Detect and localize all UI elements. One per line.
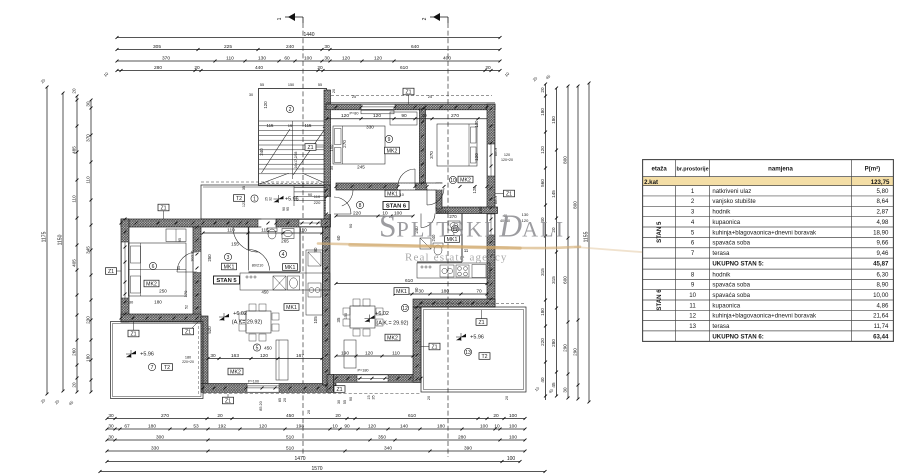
bed bedroom6 — [129, 243, 187, 296]
room number 11 — [451, 225, 458, 232]
svg-text:+5.96: +5.96 — [140, 352, 154, 358]
svg-text:55: 55 — [318, 83, 322, 87]
svg-text:340: 340 — [384, 445, 392, 451]
svg-text:115: 115 — [261, 227, 269, 233]
wall west outer — [121, 219, 129, 322]
svg-text:8: 8 — [359, 203, 362, 209]
svg-text:90: 90 — [344, 423, 350, 429]
wall between bedroom9 and bedroom10 — [420, 109, 426, 183]
wall entry-terrace east pier — [276, 219, 330, 227]
svg-text:52: 52 — [185, 305, 189, 309]
svg-text:Z1: Z1 — [108, 269, 114, 275]
entry canopy dashed — [201, 181, 330, 183]
svg-text:MK1: MK1 — [387, 191, 398, 197]
svg-text:11: 11 — [689, 302, 696, 309]
svg-text:290: 290 — [572, 348, 577, 356]
right dimension chain row1 — [545, 84, 547, 400]
svg-text:610: 610 — [405, 278, 413, 284]
svg-text:245: 245 — [357, 165, 365, 170]
svg-text:450: 450 — [262, 290, 270, 295]
room number 7 — [148, 363, 155, 370]
svg-text:90: 90 — [313, 247, 318, 252]
svg-text:70: 70 — [476, 288, 482, 294]
window in top wall — [361, 104, 395, 109]
right dimension chain row3 — [567, 86, 569, 398]
svg-text:20: 20 — [71, 88, 76, 94]
svg-text:35: 35 — [372, 395, 376, 399]
svg-text:12: 12 — [402, 306, 408, 312]
svg-text:150: 150 — [344, 313, 348, 319]
label MK2 bedroom10 — [458, 176, 473, 183]
room number 9 — [385, 135, 392, 142]
svg-text:95: 95 — [178, 238, 182, 242]
svg-text:MK1: MK1 — [286, 305, 297, 311]
svg-text:270: 270 — [451, 113, 459, 119]
svg-text:1175: 1175 — [41, 231, 47, 242]
stairs lower flight treads — [294, 186, 326, 206]
table row 2.kat highlight — [643, 177, 894, 186]
svg-text:Z1: Z1 — [336, 387, 342, 393]
level mark stan6 — [370, 315, 375, 318]
svg-text:220: 220 — [540, 338, 545, 346]
room number 12 — [401, 304, 408, 311]
svg-text:250: 250 — [159, 289, 167, 294]
svg-text:370: 370 — [85, 134, 90, 142]
wall measurement ticks bedroom6 walls — [196, 226, 199, 229]
svg-text:100: 100 — [509, 434, 517, 440]
svg-text:167: 167 — [296, 353, 304, 359]
svg-text:vanjsko stubište: vanjsko stubište — [712, 198, 756, 205]
wall measurement ticks top wall — [335, 106, 338, 109]
svg-text:5,80: 5,80 — [877, 188, 889, 195]
svg-text:510: 510 — [286, 445, 294, 451]
svg-text:9,66: 9,66 — [877, 240, 889, 247]
door gap entry stan5 — [258, 219, 283, 226]
level mark terrace7 — [131, 351, 136, 354]
dining table stan6 — [350, 306, 375, 328]
svg-text:95: 95 — [286, 207, 290, 211]
svg-text:(A.K.= 29.92): (A.K.= 29.92) — [377, 321, 409, 327]
wall east outer — [487, 104, 495, 307]
room number 10 — [449, 176, 456, 183]
svg-text:Z1: Z1 — [130, 331, 136, 337]
svg-text:390: 390 — [464, 445, 472, 451]
svg-text:110: 110 — [314, 194, 321, 199]
svg-text:90: 90 — [349, 397, 353, 401]
svg-text:br.prostorije: br.prostorije — [677, 167, 709, 173]
window parapet bedroom9 — [361, 110, 394, 114]
wall measurement ticks bedroom divider wall — [335, 185, 338, 188]
stairs break line — [259, 183, 326, 185]
svg-text:350: 350 — [378, 434, 386, 440]
door arc stan6 entry — [334, 197, 351, 214]
svg-text:10: 10 — [332, 423, 338, 429]
svg-text:30: 30 — [129, 300, 134, 305]
svg-text:305: 305 — [153, 44, 161, 50]
svg-text:Z1: Z1 — [478, 320, 484, 326]
svg-text:30: 30 — [418, 288, 424, 294]
stairs treads — [259, 121, 326, 179]
svg-text:P(m²): P(m²) — [865, 166, 881, 173]
svg-text:180: 180 — [540, 108, 545, 116]
label Z1 terrace13-top — [476, 319, 487, 326]
svg-text:20: 20 — [505, 396, 509, 400]
svg-text:MK2: MK2 — [460, 177, 471, 183]
svg-text:STAN 5: STAN 5 — [216, 278, 237, 284]
wall connector hall8 east — [436, 183, 442, 209]
svg-text:345: 345 — [85, 246, 90, 254]
top dimension chain row2 — [117, 49, 500, 51]
svg-text:440: 440 — [255, 65, 263, 71]
svg-text:35: 35 — [242, 186, 246, 190]
terrace entry T2 outline — [201, 185, 330, 219]
svg-text:8,90: 8,90 — [877, 282, 889, 289]
room number 1 — [251, 195, 258, 202]
svg-text:13: 13 — [689, 323, 696, 330]
svg-text:30: 30 — [85, 101, 90, 107]
svg-text:120: 120 — [374, 55, 382, 61]
svg-text:terasa: terasa — [712, 250, 730, 257]
svg-text:100: 100 — [304, 55, 312, 61]
svg-text:180: 180 — [437, 423, 445, 429]
door gap stan6 entry — [326, 197, 334, 214]
svg-text:1155: 1155 — [583, 231, 589, 242]
svg-text:18,90: 18,90 — [873, 229, 889, 236]
wall bedroom6 east — [193, 227, 201, 322]
svg-text:110: 110 — [85, 176, 90, 184]
svg-text:60: 60 — [284, 55, 290, 61]
svg-text:kupaonica: kupaonica — [712, 219, 740, 226]
svg-text:Z1: Z1 — [307, 145, 313, 151]
door arc bedroom6 — [177, 252, 197, 272]
bathroom11 walls — [461, 213, 463, 262]
left dimension chain row3 — [76, 96, 78, 392]
terrace13 outline — [421, 307, 526, 392]
svg-text:120: 120 — [342, 55, 350, 61]
svg-text:110: 110 — [392, 350, 400, 356]
svg-text:20: 20 — [493, 413, 499, 419]
stairs left flight diagonal — [262, 129, 291, 173]
svg-text:35: 35 — [336, 317, 341, 322]
bottom dimension chain row2 — [107, 428, 525, 430]
svg-text:3: 3 — [227, 255, 230, 261]
svg-text:kuhinja+blagovaonica+dnevni bo: kuhinja+blagovaonica+dnevni boravak — [712, 229, 817, 236]
wall stan6 south step — [327, 375, 334, 393]
svg-text:9,46: 9,46 — [877, 250, 889, 257]
svg-text:100: 100 — [480, 423, 488, 429]
svg-text:Z1: Z1 — [431, 344, 437, 350]
svg-text:1: 1 — [277, 17, 283, 20]
svg-text:450: 450 — [286, 413, 294, 419]
svg-text:+5.96: +5.96 — [470, 335, 484, 341]
stairs direction line — [293, 126, 327, 175]
roof overhang dashed — [331, 95, 492, 97]
interior dim chain bedrooms top — [327, 118, 487, 120]
svg-text:hodnik: hodnik — [712, 209, 731, 216]
window east kitchen — [487, 214, 494, 235]
svg-text:220: 220 — [353, 210, 361, 216]
wall bathroom11 north — [436, 207, 498, 214]
svg-text:120: 120 — [368, 423, 376, 429]
svg-text:namjena: namjena — [768, 166, 793, 173]
wall measurement ticks stan6 south wall — [335, 377, 338, 380]
stair block outline — [259, 89, 327, 186]
svg-text:190: 190 — [341, 350, 349, 356]
svg-text:67: 67 — [124, 423, 130, 429]
svg-text:150: 150 — [329, 144, 334, 151]
terrace7 roof dashed — [198, 326, 200, 394]
svg-text:MK1: MK1 — [224, 264, 235, 270]
window east bedroom10 — [487, 144, 494, 176]
kitchen stan6 counter — [417, 263, 490, 278]
svg-text:510: 510 — [286, 434, 294, 440]
svg-text:120: 120 — [540, 146, 545, 154]
svg-text:etaža: etaža — [651, 166, 667, 173]
svg-text:UKUPNO STAN 5:: UKUPNO STAN 5: — [712, 261, 763, 268]
watermark swoosh — [318, 244, 580, 249]
svg-text:45: 45 — [551, 382, 556, 388]
svg-text:800: 800 — [572, 201, 577, 209]
svg-text:1150: 1150 — [57, 234, 63, 245]
svg-text:+6.02: +6.02 — [233, 311, 247, 317]
svg-text:20: 20 — [194, 65, 200, 71]
dining table stan5 — [246, 311, 271, 333]
svg-text:610: 610 — [408, 413, 416, 419]
svg-text:30: 30 — [108, 413, 114, 419]
left dimension chain 1175 — [46, 87, 48, 394]
label Z1 top — [403, 88, 414, 95]
svg-text:115: 115 — [267, 123, 275, 128]
svg-text:4,86: 4,86 — [877, 302, 889, 309]
svg-text:105: 105 — [313, 316, 318, 324]
svg-text:7: 7 — [151, 365, 154, 371]
svg-text:123: 123 — [242, 201, 246, 207]
label T2 terrace13 — [479, 353, 490, 360]
svg-text:330: 330 — [151, 445, 159, 451]
svg-text:30: 30 — [421, 113, 427, 119]
wall stan5 south — [201, 384, 336, 393]
svg-text:Z1: Z1 — [506, 191, 512, 197]
right dimension chain 1155 — [588, 83, 590, 402]
svg-text:170: 170 — [183, 290, 188, 297]
wall top of west apartment — [121, 219, 261, 227]
svg-text:120: 120 — [474, 153, 479, 161]
label Z1 terrace13-left — [429, 343, 440, 350]
svg-text:55: 55 — [260, 83, 264, 87]
label Z1 stairs — [305, 144, 316, 151]
door gap room9 — [398, 183, 415, 189]
svg-text:130: 130 — [474, 120, 479, 128]
svg-text:90: 90 — [414, 287, 419, 292]
wardrobe bedroom9 — [390, 112, 417, 125]
label Z1 terrace7-b — [183, 328, 194, 335]
svg-text:180: 180 — [551, 116, 556, 124]
right dimension chain row4 — [577, 86, 579, 399]
top dimension chain row4 — [117, 70, 500, 72]
svg-text:120: 120 — [504, 153, 510, 157]
room number 6 — [149, 262, 156, 269]
svg-text:130: 130 — [258, 55, 266, 61]
svg-text:640: 640 — [411, 44, 419, 50]
svg-text:spavaća soba: spavaća soba — [712, 292, 750, 299]
svg-text:30: 30 — [562, 387, 567, 393]
room number 13 — [464, 348, 471, 355]
svg-text:110: 110 — [227, 227, 235, 233]
svg-text:270: 270 — [161, 413, 169, 419]
svg-text:315: 315 — [551, 276, 556, 284]
svg-text:40: 40 — [540, 377, 545, 383]
label T2 entry — [234, 195, 245, 202]
svg-text:300: 300 — [156, 434, 164, 440]
svg-text:30: 30 — [249, 93, 253, 97]
svg-text:85: 85 — [278, 398, 282, 402]
svg-text:15: 15 — [367, 395, 371, 399]
wall measurement ticks divider room9-10 — [421, 108, 424, 111]
svg-text:163: 163 — [231, 353, 239, 359]
svg-text:110: 110 — [71, 195, 76, 203]
wardrobe bedroom6 — [166, 229, 186, 242]
stairs bottom notch — [260, 173, 289, 184]
svg-text:220: 220 — [314, 200, 321, 205]
sofa stan6 — [344, 340, 356, 368]
svg-text:30: 30 — [108, 423, 114, 429]
top dimension chain 1440 — [117, 37, 500, 39]
svg-text:10: 10 — [689, 292, 696, 299]
svg-text:123,75: 123,75 — [871, 179, 890, 186]
svg-text:120+20: 120+20 — [501, 158, 513, 162]
svg-text:405: 405 — [71, 259, 76, 267]
svg-text:kuhinja+blagovaonica+dnevni bo: kuhinja+blagovaonica+dnevni boravak — [712, 313, 817, 320]
section marker 1 — [277, 13, 303, 23]
label MK2 bedroom6 — [144, 280, 159, 287]
bottom dimension chain row4 — [107, 450, 525, 452]
sofa stan5 — [276, 340, 288, 380]
svg-text:240: 240 — [286, 44, 294, 50]
svg-text:MK1: MK1 — [285, 265, 296, 271]
svg-text:25: 25 — [352, 95, 356, 99]
svg-text:260: 260 — [71, 348, 76, 356]
svg-text:kupaonica: kupaonica — [712, 302, 740, 309]
svg-text:90: 90 — [348, 223, 353, 228]
svg-text:15: 15 — [288, 123, 293, 128]
svg-text:80/210: 80/210 — [437, 210, 449, 214]
svg-text:60: 60 — [336, 235, 341, 240]
svg-text:100: 100 — [507, 456, 516, 462]
svg-text:20: 20 — [307, 410, 311, 414]
svg-text:180: 180 — [85, 354, 90, 362]
label MK1 kitchen6 — [394, 288, 409, 295]
svg-text:100: 100 — [509, 413, 517, 419]
svg-text:T2: T2 — [164, 365, 170, 371]
svg-text:120: 120 — [472, 186, 477, 194]
bottom dimension chain 1470 — [107, 461, 520, 463]
svg-text:155: 155 — [231, 242, 239, 247]
svg-text:85 20: 85 20 — [259, 401, 263, 411]
label STAN 6 — [383, 202, 409, 210]
svg-text:63,44: 63,44 — [873, 333, 889, 340]
svg-text:20: 20 — [217, 413, 223, 419]
svg-text:20: 20 — [485, 65, 491, 71]
left dimension chain 1150 — [62, 93, 64, 391]
table background — [643, 160, 894, 342]
svg-text:natkriveni ulaz: natkriveni ulaz — [712, 188, 751, 195]
svg-text:UKUPNO STAN 6:: UKUPNO STAN 6: — [712, 333, 763, 340]
wall measurement ticks stan5/6 divider — [325, 189, 328, 192]
window west bedroom6 — [121, 242, 128, 298]
window stair east wall — [324, 108, 330, 121]
wall stan6 south-east — [413, 299, 495, 307]
label Z1 below stan5 — [223, 397, 234, 404]
svg-text:20: 20 — [540, 87, 545, 93]
svg-text:90/210: 90/210 — [191, 251, 195, 262]
svg-text:520: 520 — [207, 326, 212, 334]
svg-text:370: 370 — [429, 151, 434, 159]
svg-text:120: 120 — [365, 350, 373, 356]
svg-text:80/210: 80/210 — [252, 264, 264, 268]
bed bedroom10 — [437, 124, 477, 166]
wall top of upper-right block — [326, 104, 495, 110]
svg-text:Real estate agency: Real estate agency — [405, 252, 508, 264]
label MK1 bath4 — [283, 264, 298, 271]
svg-text:120: 120 — [263, 101, 268, 109]
svg-text:11,74: 11,74 — [874, 323, 889, 330]
door arc bedroom9 — [398, 169, 415, 186]
svg-text:80/-9: 80/-9 — [494, 148, 498, 156]
svg-text:450: 450 — [264, 346, 272, 351]
label MK1 bath11 — [445, 236, 460, 243]
svg-text:315: 315 — [540, 268, 545, 276]
svg-text:+6.02: +6.02 — [375, 311, 389, 317]
label Z1 entry-left — [158, 204, 169, 211]
svg-text:20: 20 — [283, 398, 287, 402]
svg-text:Z1: Z1 — [405, 89, 411, 95]
svg-text:560: 560 — [540, 179, 545, 187]
label Z1 terrace7-a — [128, 330, 139, 337]
wall between stan5 and stan6 — [323, 227, 331, 385]
interior dim kitchen6 chains — [336, 283, 487, 285]
svg-text:485: 485 — [71, 146, 76, 154]
svg-text:Z1: Z1 — [160, 205, 166, 211]
svg-text:30: 30 — [210, 353, 216, 359]
level mark stan5 — [224, 314, 229, 317]
svg-text:180: 180 — [540, 308, 545, 316]
svg-text:MK2: MK2 — [387, 148, 398, 154]
interior dim hall3 chain — [203, 232, 322, 234]
label Z1 south-east corner — [334, 386, 345, 393]
label MK2 stan5 — [228, 368, 243, 375]
svg-text:53: 53 — [193, 423, 199, 429]
svg-text:T2: T2 — [236, 196, 242, 202]
wall measurement ticks stan5 south wall — [202, 387, 205, 390]
svg-text:220+20: 220+20 — [182, 360, 194, 364]
svg-text:45,87: 45,87 — [873, 261, 889, 268]
svg-text:hodnik: hodnik — [712, 271, 731, 278]
label Z1 east — [504, 190, 515, 197]
svg-text:192: 192 — [218, 423, 226, 429]
svg-text:20: 20 — [317, 65, 323, 71]
svg-text:2: 2 — [422, 17, 428, 20]
svg-text:2,87: 2,87 — [877, 209, 889, 216]
svg-text:MK2: MK2 — [146, 281, 157, 287]
svg-text:610: 610 — [400, 65, 408, 71]
wall measurement ticks west apartment wall — [120, 222, 123, 225]
room number 8 — [356, 201, 363, 208]
svg-text:240: 240 — [259, 148, 264, 156]
svg-text:4,98: 4,98 — [877, 219, 889, 226]
section marker 2 — [422, 13, 448, 23]
level mark entry — [279, 196, 284, 199]
svg-text:30: 30 — [337, 400, 341, 404]
